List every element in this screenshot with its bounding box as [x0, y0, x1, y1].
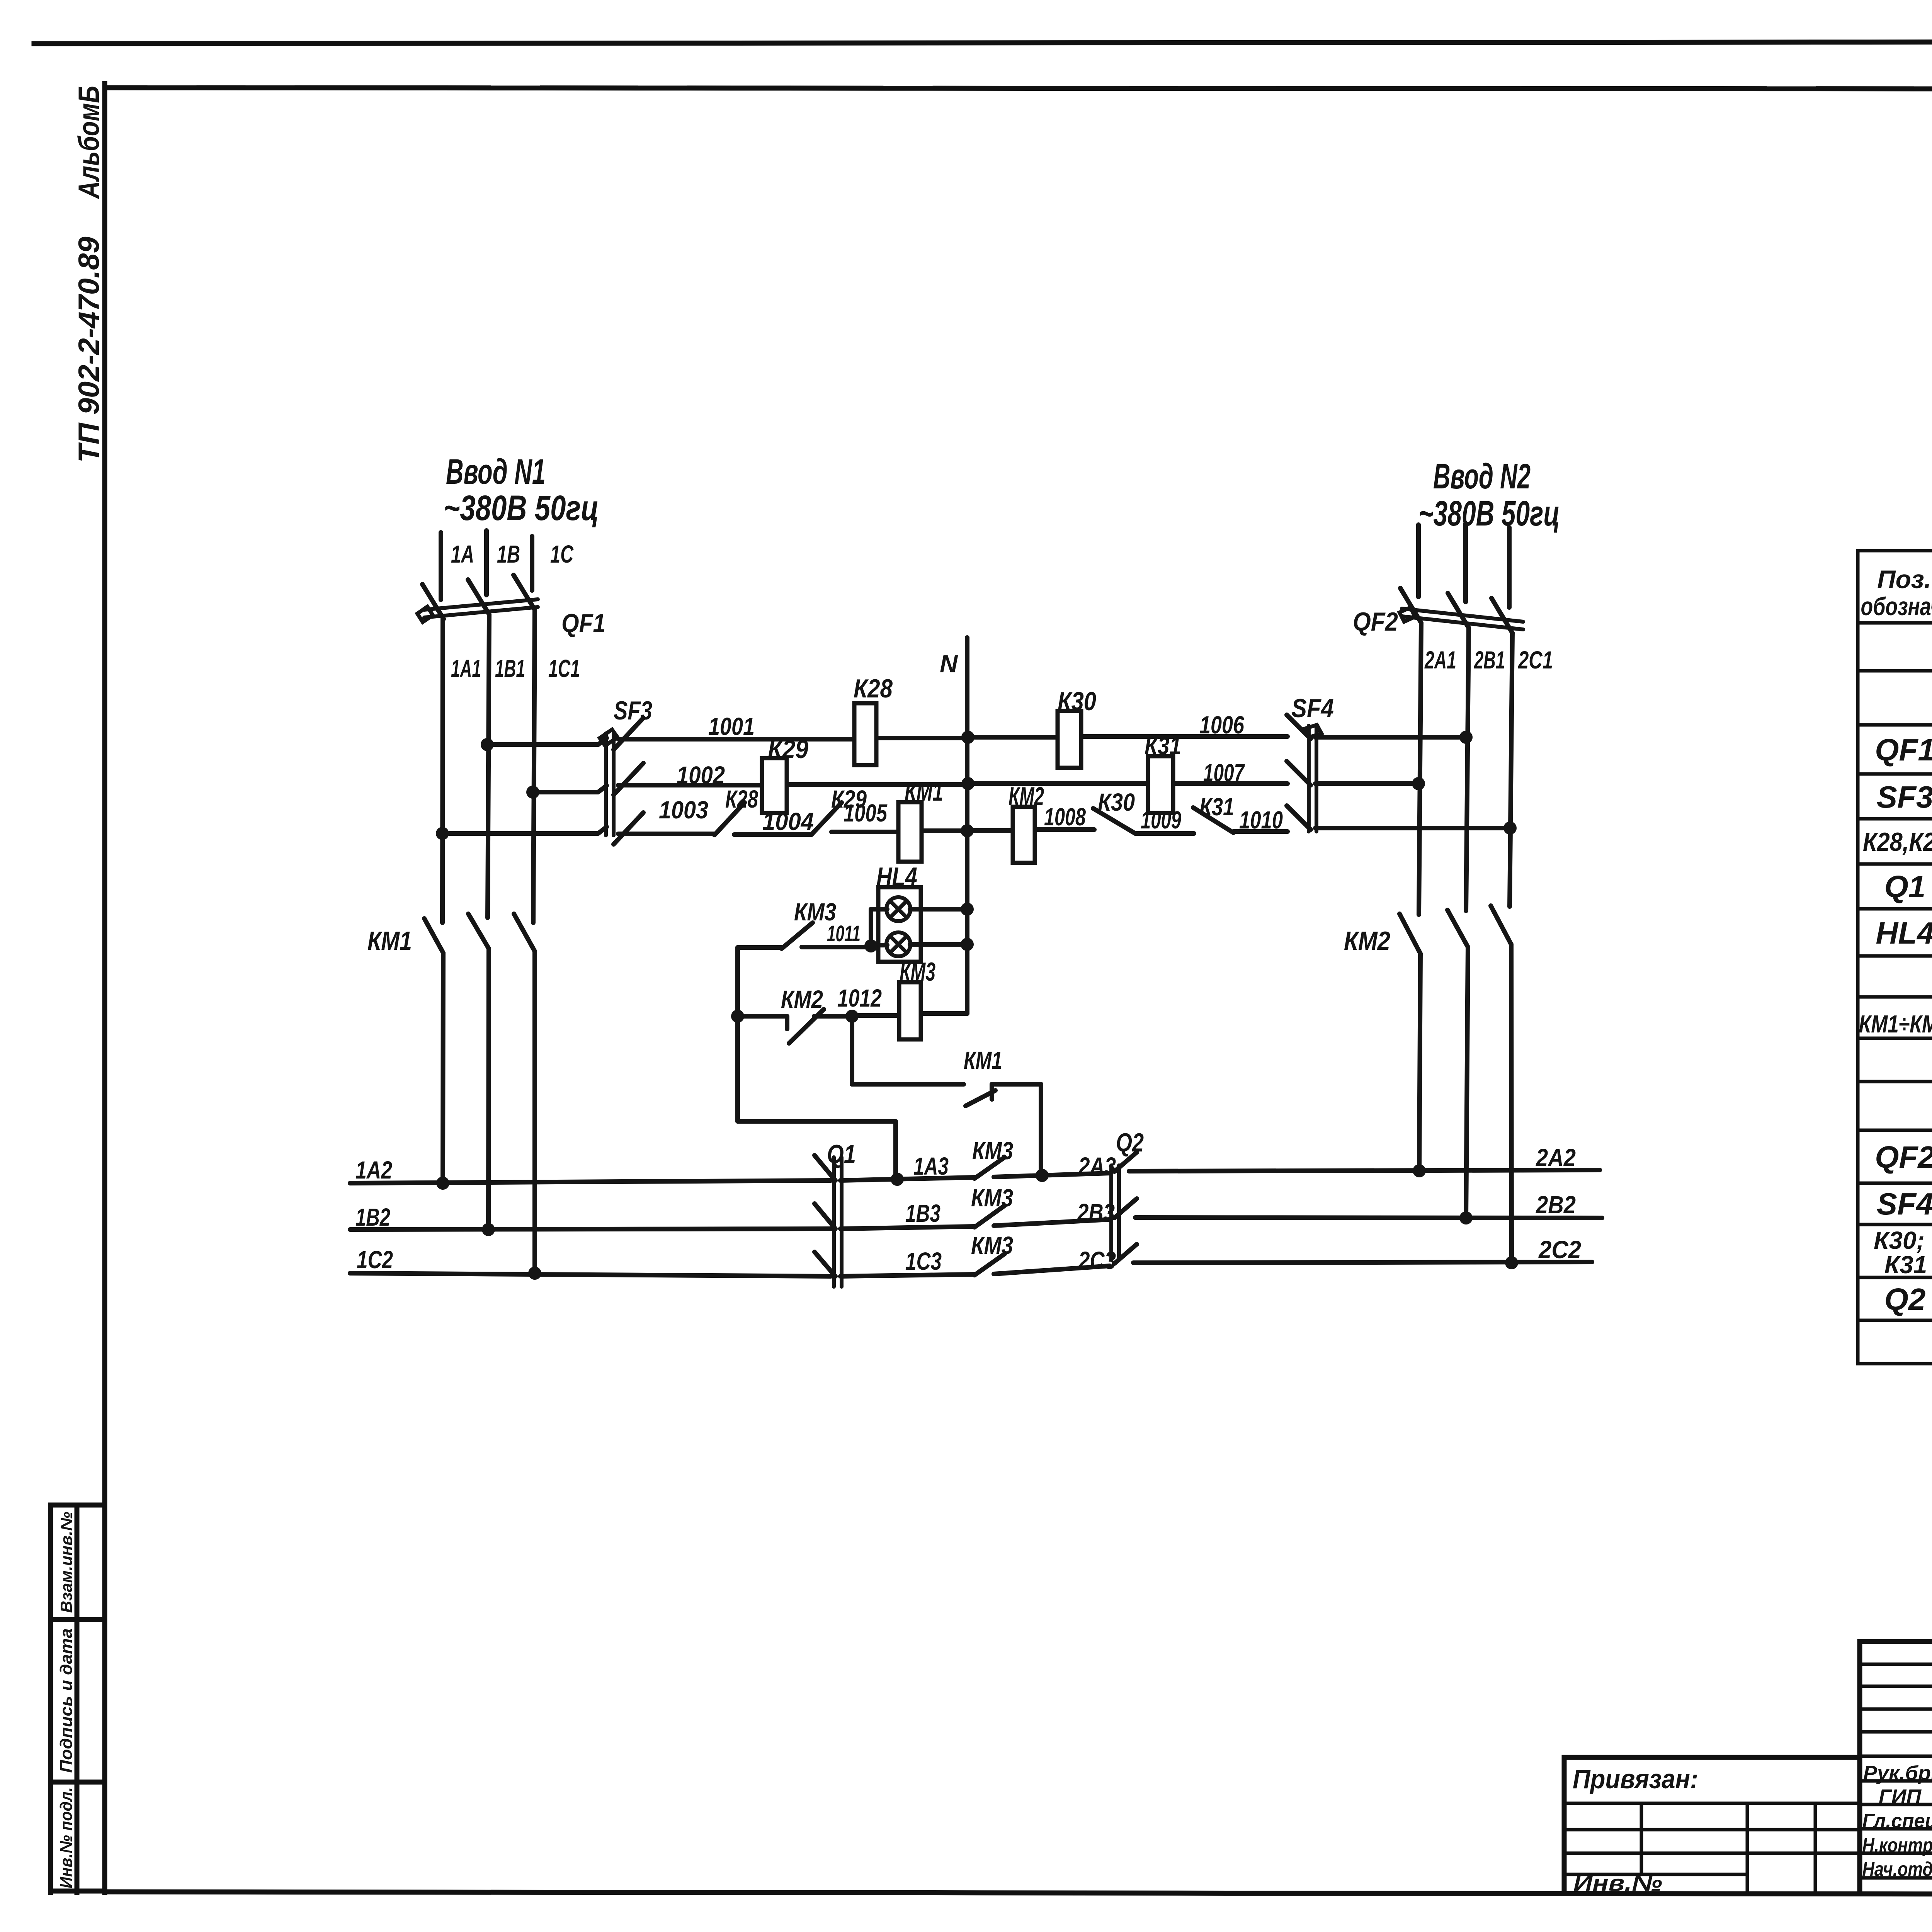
- contact KM3 blade on wire 1011: [782, 923, 813, 949]
- svg-text:К29: К29: [768, 735, 808, 764]
- wire phase 1C lower: [532, 951, 537, 1273]
- svg-text:1005: 1005: [844, 799, 888, 827]
- svg-text:КМ2: КМ2: [1009, 782, 1044, 811]
- wire 2C3: [994, 1266, 1110, 1274]
- knife switch Q1 blade C: [815, 1252, 835, 1276]
- contactor KM2 pole 2B blade: [1447, 910, 1468, 947]
- svg-text:1012: 1012: [837, 984, 882, 1012]
- svg-text:ГИП: ГИП: [1879, 1786, 1922, 1808]
- svg-text:К31: К31: [1884, 1251, 1927, 1279]
- svg-text:АльбомБ: АльбомБ: [73, 86, 105, 199]
- wire phase 1B lower: [488, 949, 489, 1230]
- contact KM1 NO blade: [966, 1084, 995, 1106]
- breaker SF3 handle: [600, 730, 617, 746]
- contactor KM1 pole 1B blade: [468, 914, 489, 949]
- wire SF3 input from 1C: [533, 786, 607, 792]
- svg-text:Инв.№: Инв.№: [1573, 1871, 1662, 1896]
- contactor KM2 pole 2A blade: [1400, 914, 1420, 954]
- wire 1005 to coil KM1: [832, 830, 898, 834]
- svg-text:SF3: SF3: [1877, 780, 1932, 814]
- wire phase 2A middle: [1419, 623, 1421, 915]
- svg-text:SF4: SF4: [1877, 1187, 1932, 1221]
- svg-text:2В3: 2В3: [1077, 1199, 1115, 1226]
- svg-text:К30;: К30;: [1874, 1226, 1925, 1254]
- svg-text:QF1: QF1: [561, 609, 605, 638]
- wire 1001 K28 to node N: [876, 736, 967, 740]
- wire 1005 coil KM1 to node N: [922, 828, 967, 833]
- svg-text:1С1: 1С1: [548, 655, 580, 682]
- wire phase 1B middle: [488, 614, 489, 918]
- breaker SF3 pole 1 blade: [614, 718, 643, 750]
- breaker QF1 pole 1C blade: [514, 575, 535, 610]
- svg-text:Рук.бр.: Рук.бр.: [1863, 1762, 1932, 1784]
- svg-text:обознач.: обознач.: [1861, 592, 1932, 621]
- contact KM3 blade row B: [975, 1206, 1005, 1227]
- wire phase 2A upper: [1416, 525, 1421, 597]
- wire 1002 K29 to node N: [787, 782, 967, 787]
- svg-text:Привязан:: Привязан:: [1573, 1764, 1698, 1794]
- breaker SF4 double bar: [1309, 726, 1316, 832]
- wire 1007 K31 to SF4: [1173, 781, 1287, 786]
- junction dots group 1: [436, 731, 1518, 1280]
- wire phase 2B lower: [1466, 947, 1468, 1218]
- wire 2B3: [994, 1219, 1110, 1226]
- breaker QF2 handle: [1400, 607, 1415, 622]
- drawing frame bottom border: [105, 1892, 1932, 1895]
- svg-text:КМ3: КМ3: [900, 957, 935, 986]
- svg-text:1003: 1003: [659, 796, 708, 824]
- wire SF4 to phase 2B: [1315, 735, 1466, 740]
- wire phase 1A middle: [442, 619, 443, 923]
- knife switch Q2 double bar: [1111, 1165, 1119, 1260]
- svg-text:Ввод N1: Ввод N1: [446, 452, 546, 492]
- svg-text:Гл.спец: Гл.спец: [1862, 1810, 1932, 1832]
- svg-text:Взам.инв.№: Взам.инв.№: [57, 1512, 75, 1613]
- wire 1B3: [840, 1226, 975, 1229]
- wire 1003 SF3 to contact K28: [618, 832, 714, 836]
- wire 1001 SF3 to K28: [618, 737, 854, 742]
- svg-text:1В: 1В: [497, 540, 520, 568]
- wire phase 1C upper: [530, 536, 534, 590]
- svg-text:1А: 1А: [451, 540, 474, 568]
- lamp HL4 wire to N bottom: [910, 942, 967, 947]
- svg-text:К28: К28: [725, 785, 758, 813]
- svg-text:2А2: 2А2: [1536, 1144, 1576, 1172]
- relay coil K30: [1058, 711, 1081, 768]
- svg-text:К31: К31: [1199, 793, 1234, 821]
- svg-text:1А1: 1А1: [451, 655, 481, 682]
- svg-text:2С2: 2С2: [1538, 1236, 1581, 1264]
- breaker SF4 pole 3 blade: [1287, 806, 1311, 830]
- svg-text:КМ2: КМ2: [781, 985, 823, 1013]
- breaker SF3 pole 2 blade: [614, 763, 643, 795]
- parts list table grid: [1858, 551, 1932, 1364]
- svg-text:К28: К28: [854, 674, 893, 703]
- wire contact KM1 to drop: [992, 1082, 1041, 1087]
- svg-text:1002: 1002: [677, 761, 725, 789]
- wire 2A3: [994, 1173, 1110, 1177]
- breaker QF2 pole 2C blade: [1492, 598, 1512, 633]
- svg-text:КМ3: КМ3: [971, 1231, 1013, 1259]
- svg-text:К30: К30: [1058, 687, 1096, 716]
- relay coil K31: [1148, 756, 1173, 813]
- wire phase 2B upper: [1463, 524, 1468, 602]
- knife switch Q2 blade B: [1114, 1199, 1137, 1218]
- svg-text:Нач.отд.: Нач.отд.: [1862, 1858, 1932, 1881]
- wire 1008 coil KM2 to contact K30: [1035, 827, 1094, 832]
- svg-text:1В1: 1В1: [495, 655, 525, 682]
- svg-text:КМ1: КМ1: [367, 926, 412, 956]
- contact KM2 NC blade: [789, 1009, 824, 1043]
- svg-text:SF3: SF3: [614, 696, 652, 725]
- svg-text:КМ1: КМ1: [905, 777, 943, 806]
- bus 2B2: [1135, 1218, 1602, 1218]
- wire riser down from 1012 junction: [850, 1016, 854, 1084]
- breaker SF3 pole 3 blade: [614, 813, 643, 844]
- wire phase 1B upper: [484, 531, 489, 595]
- wire phase 2C middle: [1510, 633, 1512, 906]
- svg-text:Н.контр.: Н.контр.: [1862, 1834, 1932, 1857]
- svg-text:~380В 50гц: ~380В 50гц: [444, 488, 599, 528]
- lamp HL4 bottom circle: [886, 932, 910, 956]
- lamp unit HL4 feeder bus: [871, 909, 887, 946]
- svg-text:1С2: 1С2: [357, 1246, 393, 1274]
- svg-text:2В2: 2В2: [1536, 1191, 1576, 1219]
- breaker SF4 pole 2 blade: [1287, 761, 1311, 785]
- knife switch Q2 blade C: [1114, 1244, 1137, 1264]
- bus 1A2: [350, 1180, 831, 1183]
- breaker SF4 handle: [1304, 725, 1321, 737]
- wire 1012 to junction: [814, 1014, 852, 1019]
- svg-text:2В1: 2В1: [1474, 646, 1505, 674]
- breaker QF2 pole 2B blade: [1448, 593, 1469, 628]
- relay coil K29: [762, 758, 787, 813]
- svg-text:К28,К29: К28,К29: [1863, 827, 1932, 857]
- svg-text:1В2: 1В2: [355, 1203, 390, 1231]
- contactor KM2 pole 2C blade: [1491, 906, 1511, 944]
- wire drop to bus 1A3: [893, 1121, 898, 1179]
- svg-text:1008: 1008: [1044, 803, 1086, 831]
- svg-text:1010: 1010: [1239, 806, 1283, 834]
- wire 1006 K30 to SF4: [1081, 734, 1287, 739]
- lamp unit HL4 box: [878, 887, 921, 962]
- wire 1010 to SF4: [1233, 829, 1287, 834]
- svg-text:1А2: 1А2: [355, 1156, 392, 1184]
- drawing frame top border: [105, 88, 1932, 89]
- contactor coil KM2: [1013, 807, 1035, 863]
- contactor coil KM1: [898, 802, 922, 862]
- wire to contact KM1: [852, 1082, 964, 1087]
- contact KM3 blade row C: [975, 1254, 1005, 1275]
- svg-text:Q1: Q1: [827, 1139, 856, 1169]
- svg-text:КМ3: КМ3: [972, 1137, 1013, 1165]
- svg-text:1001: 1001: [708, 713, 755, 740]
- wire junction to coil KM3: [852, 1013, 899, 1018]
- wire coil KM3 to node N bottom: [921, 1012, 967, 1014]
- contactor KM1 pole 1A blade: [424, 918, 443, 953]
- contactor KM1 pole 1C blade: [514, 914, 535, 951]
- wire 1004 segment: [734, 832, 811, 837]
- breaker QF1 crossbar: [424, 599, 538, 617]
- svg-text:К30: К30: [1098, 788, 1135, 816]
- bus 2C2: [1133, 1262, 1592, 1263]
- svg-text:Q2: Q2: [1116, 1128, 1144, 1157]
- wire drop to bus 2A3: [1039, 1084, 1043, 1176]
- breaker QF1 pole 1A blade: [422, 584, 444, 619]
- contact KM3 blade row A: [975, 1157, 1005, 1179]
- breaker QF2 pole 2A blade: [1400, 588, 1421, 623]
- svg-text:HL4: HL4: [1876, 916, 1932, 950]
- knife switch Q2 blade A: [1114, 1152, 1137, 1172]
- lamp HL4 wire to N top: [910, 907, 967, 912]
- wire phase 2A lower: [1419, 954, 1420, 1171]
- knife switch Q1 double bar: [834, 1157, 842, 1287]
- svg-text:1006: 1006: [1199, 711, 1244, 739]
- svg-text:1С: 1С: [550, 540, 574, 568]
- relay coil K28: [854, 703, 876, 765]
- svg-text:SF4: SF4: [1291, 694, 1334, 723]
- svg-text:КМ2: КМ2: [1344, 926, 1390, 956]
- svg-text:КМ3: КМ3: [971, 1184, 1013, 1212]
- wire SF3 input from 1A: [442, 827, 607, 833]
- sheet outer top border line: [34, 41, 1932, 44]
- svg-text:К31: К31: [1145, 732, 1181, 760]
- svg-text:Поз.: Поз.: [1877, 565, 1931, 594]
- svg-text:Подпись и дата: Подпись и дата: [57, 1628, 76, 1773]
- svg-text:КМ1÷КМ3: КМ1÷КМ3: [1859, 1010, 1932, 1038]
- bottom-left margin cells: [51, 1505, 105, 1893]
- wire SF4 to phase 2C: [1315, 826, 1510, 830]
- svg-text:1009: 1009: [1141, 806, 1181, 834]
- wire 1011 to lamp bus: [802, 945, 871, 949]
- svg-text:N: N: [940, 650, 958, 678]
- svg-text:1007: 1007: [1203, 759, 1245, 787]
- title block signature grid: [1860, 1641, 1932, 1893]
- lamp HL4 top circle: [886, 897, 910, 921]
- svg-text:~380В 50гц: ~380В 50гц: [1418, 494, 1560, 533]
- wire 1011 from left riser: [738, 945, 782, 950]
- breaker SF4 pole 1 blade: [1287, 715, 1311, 739]
- breaker QF1 pole 1B blade: [468, 580, 489, 614]
- wire 1002 SF3 to K29: [618, 783, 762, 787]
- svg-text:Ввод N2: Ввод N2: [1433, 457, 1531, 496]
- wire 1007 node N to K31: [967, 781, 1148, 786]
- svg-text:1011: 1011: [827, 921, 861, 946]
- bus 1B2: [350, 1229, 831, 1230]
- wire SF3 input from 1B: [487, 738, 607, 745]
- wire phase 2C lower: [1511, 944, 1512, 1263]
- svg-text:QF2: QF2: [1353, 607, 1398, 636]
- wire 1A3: [840, 1177, 975, 1180]
- svg-text:HL4: HL4: [876, 862, 917, 891]
- contact K29 blade: [811, 803, 842, 835]
- svg-text:Q2: Q2: [1884, 1282, 1926, 1316]
- svg-text:2А1: 2А1: [1424, 646, 1456, 674]
- wire 1012 from riser: [738, 1016, 787, 1029]
- node N vertical line: [965, 638, 969, 1014]
- svg-text:2С1: 2С1: [1518, 646, 1553, 674]
- wire phase 1C middle: [533, 610, 535, 923]
- wire SF4 to phase 2A: [1315, 781, 1418, 786]
- contact K30 blade: [1093, 808, 1135, 833]
- left riser wire: [735, 947, 740, 1121]
- knife switch Q1 blade B: [815, 1204, 835, 1229]
- wire 1C3: [840, 1274, 975, 1276]
- breaker SF3 double bar: [606, 733, 614, 835]
- svg-text:КМ1: КМ1: [964, 1046, 1002, 1074]
- breaker QF2 crossbar: [1402, 609, 1523, 629]
- svg-text:Q1: Q1: [1884, 869, 1926, 904]
- wire 1006 node N to K30: [967, 735, 1058, 740]
- wire phase 1A upper: [439, 532, 443, 600]
- svg-text:1В3: 1В3: [905, 1199, 940, 1227]
- wire phase 2C upper: [1507, 527, 1512, 607]
- bus 1C2: [350, 1273, 831, 1276]
- privyazan box grid: [1564, 1757, 1860, 1893]
- wire 1008 node N to coil KM2: [967, 828, 1013, 833]
- svg-text:1А3: 1А3: [913, 1152, 949, 1180]
- drawing frame left border: [102, 83, 107, 1893]
- wire 1009 segment: [1135, 831, 1194, 836]
- breaker QF1 handle: [417, 607, 433, 622]
- wire phase 2B middle: [1466, 628, 1469, 911]
- svg-text:Инв.№ подл.: Инв.№ подл.: [57, 1787, 76, 1888]
- wire left riser bottom run: [738, 1119, 896, 1124]
- contact K31 blade: [1193, 808, 1233, 833]
- contactor coil KM3: [899, 982, 921, 1039]
- svg-text:QF1: QF1: [1875, 733, 1932, 767]
- svg-text:1С3: 1С3: [905, 1247, 942, 1275]
- svg-text:ТП 902-2-470.89: ТП 902-2-470.89: [73, 237, 105, 463]
- bus 2A2: [1129, 1170, 1600, 1171]
- knife switch Q1 blade A: [815, 1155, 835, 1180]
- contact K28 blade: [714, 803, 745, 835]
- wire phase 1A lower: [443, 953, 443, 1183]
- svg-text:QF2: QF2: [1875, 1140, 1932, 1174]
